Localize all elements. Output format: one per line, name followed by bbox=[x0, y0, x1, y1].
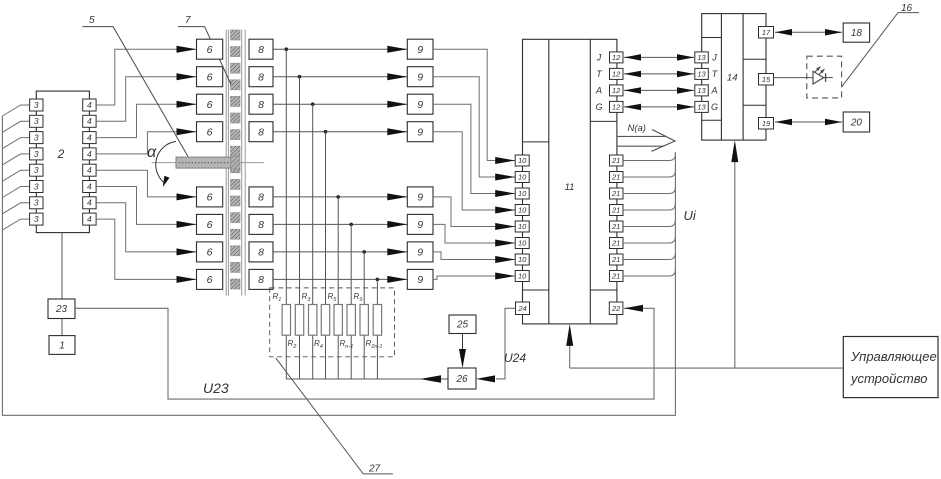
svg-text:10: 10 bbox=[518, 173, 527, 182]
svg-text:3: 3 bbox=[34, 133, 39, 143]
pin box 13.4 bbox=[695, 101, 709, 112]
pin box 21.7 bbox=[610, 254, 624, 265]
svg-text:6: 6 bbox=[207, 219, 213, 231]
wire box21.3 to Ui bus bbox=[623, 187, 675, 194]
wire input line 2 into box 3.2 bbox=[2, 121, 29, 132]
wire box8.5 to box9.5 bbox=[273, 196, 407, 198]
box 9.7 bbox=[407, 242, 433, 262]
junction dot row 3 bbox=[311, 102, 315, 106]
svg-text:3: 3 bbox=[34, 149, 39, 159]
wire input line 1 into box 3.1 bbox=[2, 105, 29, 116]
pin box 21.8 bbox=[610, 271, 624, 282]
svg-text:23: 23 bbox=[55, 304, 68, 315]
wiper shaft centerline bbox=[152, 162, 264, 164]
box 6.7 bbox=[197, 242, 223, 262]
pin box 4.3 bbox=[83, 132, 96, 144]
wire input line 3 into box 3.3 bbox=[2, 138, 29, 149]
svg-text:8: 8 bbox=[258, 71, 264, 83]
arrow up into block 14 bbox=[734, 150, 736, 368]
box 6.6 bbox=[197, 214, 223, 234]
pin box 4.5 bbox=[83, 164, 96, 176]
svg-text:9: 9 bbox=[417, 71, 423, 83]
svg-text:9: 9 bbox=[417, 247, 423, 259]
svg-text:21: 21 bbox=[611, 222, 620, 231]
box 8.2 bbox=[249, 67, 273, 87]
svg-text:10: 10 bbox=[518, 206, 527, 215]
svg-text:10: 10 bbox=[518, 156, 527, 165]
svg-text:10: 10 bbox=[518, 255, 527, 264]
block 11 (measuring unit) outline bbox=[523, 39, 617, 324]
box 9.6 bbox=[407, 214, 433, 234]
wire input line 4 into box 3.4 bbox=[2, 154, 29, 165]
svg-text:12: 12 bbox=[612, 86, 621, 95]
bidirectional wire box12.2 to box13.2 bbox=[624, 73, 694, 75]
svg-text:12: 12 bbox=[612, 53, 621, 62]
bidirectional wire box12.1 to box13.1 bbox=[624, 56, 694, 58]
pin box 4.2 bbox=[83, 115, 96, 127]
svg-text:11: 11 bbox=[565, 182, 575, 193]
svg-text:6: 6 bbox=[207, 274, 213, 286]
box 8.8 bbox=[249, 269, 273, 289]
svg-text:5: 5 bbox=[89, 15, 95, 26]
svg-text:14: 14 bbox=[727, 73, 738, 84]
commutator rail lines (element 7) bbox=[225, 30, 227, 296]
svg-text:3: 3 bbox=[34, 214, 39, 224]
svg-text:22: 22 bbox=[611, 304, 621, 313]
resistor R1 bbox=[282, 305, 290, 336]
bidirectional wire box12.4 to box13.4 bbox=[624, 106, 694, 108]
svg-text:7: 7 bbox=[185, 15, 191, 26]
pin box 4.1 bbox=[83, 99, 96, 111]
svg-text:8: 8 bbox=[258, 274, 264, 286]
box 6.2 bbox=[197, 67, 223, 87]
LED diode symbol bbox=[813, 71, 824, 84]
box 8.6 bbox=[249, 214, 273, 234]
box 8.7 bbox=[249, 242, 273, 262]
pin box 21.1 bbox=[610, 155, 624, 166]
pin box 3.4 bbox=[30, 148, 43, 160]
svg-text:A: A bbox=[595, 86, 602, 96]
junction dot row 1 bbox=[285, 47, 289, 51]
control device box bbox=[843, 337, 938, 398]
wire box21.2 to Ui bus bbox=[623, 171, 675, 178]
box 8.1 bbox=[249, 39, 273, 59]
svg-text:9: 9 bbox=[417, 44, 423, 56]
pin box 4.4 bbox=[83, 148, 96, 160]
leader line and label 27 bbox=[276, 358, 393, 474]
pin box 21.4 bbox=[610, 205, 624, 216]
svg-text:4: 4 bbox=[87, 133, 92, 143]
junction dot row 2 bbox=[298, 75, 302, 79]
svg-text:13: 13 bbox=[697, 86, 706, 95]
block 2 (input register) outline bbox=[36, 91, 89, 233]
svg-text:19: 19 bbox=[762, 119, 771, 128]
svg-text:8: 8 bbox=[258, 219, 264, 231]
svg-text:8: 8 bbox=[258, 192, 264, 204]
pin box 3.8 bbox=[30, 213, 43, 225]
wire box2 bottom to box23 bbox=[61, 233, 63, 299]
pin box 3.7 bbox=[30, 197, 43, 209]
box 8.5 bbox=[249, 187, 273, 207]
box 9.3 bbox=[407, 94, 433, 114]
svg-text:12: 12 bbox=[612, 70, 621, 79]
block 14 left column dividers bbox=[702, 37, 722, 39]
box 9.8 bbox=[407, 269, 433, 289]
arrow box25 to box26 bbox=[462, 334, 464, 351]
bidirectional wire box12.3 to box13.3 bbox=[624, 89, 694, 91]
resistor R8 bbox=[373, 305, 381, 336]
pin box 21.3 bbox=[610, 188, 624, 199]
arrow up into block 11 bbox=[569, 334, 571, 368]
svg-text:21: 21 bbox=[611, 206, 620, 215]
svg-text:Ui: Ui bbox=[684, 208, 697, 223]
svg-text:10: 10 bbox=[518, 272, 527, 281]
wire U23 from box23 to box22 bbox=[75, 308, 654, 399]
box 9.4 bbox=[407, 122, 433, 142]
box 18 bbox=[843, 23, 869, 42]
box 26 bbox=[448, 368, 476, 389]
resistor common bus wire to block 26 bbox=[286, 378, 448, 380]
angle arc with arrow bbox=[156, 141, 176, 183]
pin box 13.2 bbox=[695, 68, 709, 79]
svg-text:6: 6 bbox=[207, 44, 213, 56]
pin box 12.2 bbox=[610, 68, 624, 79]
pin box 3.6 bbox=[30, 181, 43, 193]
svg-text:8: 8 bbox=[258, 247, 264, 259]
box 23 bbox=[48, 299, 75, 319]
svg-text:8: 8 bbox=[258, 126, 264, 138]
pin box 21.2 bbox=[610, 172, 624, 183]
wire box9.2 to box10.2 bbox=[433, 77, 515, 177]
wire box4.7 to box6.7 bbox=[96, 203, 196, 252]
pin box 10.2 bbox=[515, 172, 529, 183]
wire box9.4 to box10.4 bbox=[433, 132, 515, 210]
pin box 10.1 bbox=[515, 155, 529, 166]
resistor R4 bbox=[321, 305, 329, 336]
svg-text:N(a): N(a) bbox=[628, 123, 646, 134]
junction dot row 7 bbox=[362, 250, 366, 254]
wire box9.5 to box10.5 bbox=[433, 197, 515, 227]
wire box8.3 to box9.3 bbox=[273, 103, 407, 105]
bidirectional wire box17 to box18 bbox=[775, 31, 842, 33]
svg-text:3: 3 bbox=[34, 181, 39, 191]
svg-text:4: 4 bbox=[87, 181, 92, 191]
svg-text:4: 4 bbox=[87, 149, 92, 159]
wire box21.8 to Ui bus bbox=[623, 270, 675, 277]
svg-text:9: 9 bbox=[417, 274, 423, 286]
pin box 13.1 bbox=[695, 52, 709, 63]
svg-text:8: 8 bbox=[258, 99, 264, 111]
svg-text:J: J bbox=[711, 53, 717, 63]
box 6.5 bbox=[197, 187, 223, 207]
svg-text:8: 8 bbox=[258, 44, 264, 56]
junction dot row 8 bbox=[376, 278, 380, 282]
pin box 3.1 bbox=[30, 99, 43, 111]
dashed box around LED bbox=[807, 56, 842, 98]
box 25 bbox=[449, 315, 476, 334]
pin box 10.3 bbox=[515, 188, 529, 199]
svg-text:13: 13 bbox=[697, 103, 706, 112]
pin box 10.7 bbox=[515, 254, 529, 265]
pin box 4.6 bbox=[83, 181, 96, 193]
wire box9.8 to box10.8 bbox=[433, 276, 515, 279]
svg-text:21: 21 bbox=[611, 239, 620, 248]
svg-text:21: 21 bbox=[611, 255, 620, 264]
wire box8.1 to box9.1 bbox=[273, 48, 407, 50]
wire input line 6 into box 3.6 bbox=[2, 187, 29, 198]
wire box4.3 to box6.3 bbox=[96, 104, 196, 137]
pin box 12.3 bbox=[610, 85, 624, 96]
pin box 4.8 bbox=[83, 213, 96, 225]
wire control device to blocks 11 and 14 bbox=[570, 367, 844, 369]
svg-text:Управляющее: Управляющее bbox=[850, 349, 937, 364]
svg-text:J: J bbox=[596, 53, 602, 63]
block 14 inner vertical lines bbox=[720, 14, 722, 141]
pin box 10.4 bbox=[515, 205, 529, 216]
wire box21.4 to Ui bus bbox=[623, 204, 675, 211]
box 8.4 bbox=[249, 122, 273, 142]
junction dot row 4 bbox=[324, 130, 328, 134]
svg-text:A: A bbox=[710, 86, 717, 96]
svg-text:24: 24 bbox=[517, 304, 526, 313]
svg-text:20: 20 bbox=[850, 117, 863, 128]
svg-text:13: 13 bbox=[697, 53, 706, 62]
svg-text:6: 6 bbox=[207, 192, 213, 204]
wire box4.8 to box6.8 bbox=[96, 219, 196, 279]
svg-text:26: 26 bbox=[455, 374, 468, 385]
pin box 10.8 bbox=[515, 271, 529, 282]
pin box 3.3 bbox=[30, 132, 43, 144]
block 14 right column dividers bbox=[743, 58, 766, 60]
svg-text:6: 6 bbox=[207, 126, 213, 138]
resistor R5 bbox=[334, 305, 342, 336]
svg-text:4: 4 bbox=[87, 116, 92, 126]
resistor tap wires down from rows bbox=[285, 49, 287, 304]
pin box 21.5 bbox=[610, 221, 624, 232]
svg-text:G: G bbox=[711, 102, 718, 112]
bidirectional wire box19 to box20 bbox=[775, 121, 842, 123]
wire box4.2 to box6.2 bbox=[96, 77, 196, 122]
svg-text:12: 12 bbox=[612, 103, 621, 112]
wire box8.7 to box9.7 bbox=[273, 251, 407, 253]
svg-text:10: 10 bbox=[518, 222, 527, 231]
svg-text:3: 3 bbox=[34, 198, 39, 208]
resistor R3 bbox=[309, 305, 317, 336]
svg-text:9: 9 bbox=[417, 126, 423, 138]
wire box9.3 to box10.3 bbox=[433, 104, 515, 193]
svg-text:3: 3 bbox=[34, 116, 39, 126]
box 20 bbox=[843, 112, 869, 132]
box 6.3 bbox=[197, 94, 223, 114]
hatch where wiper crosses commutator bbox=[231, 156, 241, 169]
box 9.5 bbox=[407, 187, 433, 207]
svg-text:3: 3 bbox=[34, 165, 39, 175]
svg-text:10: 10 bbox=[518, 189, 527, 198]
box 9.1 bbox=[407, 39, 433, 59]
wire box4.5 to box6.5 bbox=[96, 170, 196, 197]
pin box 19 bbox=[759, 118, 774, 130]
box 6.8 bbox=[197, 269, 223, 289]
svg-text:25: 25 bbox=[456, 320, 469, 331]
pin box 22 bbox=[609, 302, 623, 315]
svg-text:1: 1 bbox=[59, 340, 65, 351]
svg-text:9: 9 bbox=[417, 192, 423, 204]
resistor R2 bbox=[295, 305, 303, 336]
junction dot row 5 bbox=[336, 195, 340, 199]
pin box 3.5 bbox=[30, 164, 43, 176]
svg-text:3: 3 bbox=[34, 100, 39, 110]
svg-text:9: 9 bbox=[417, 99, 423, 111]
wire box8.4 to box9.4 bbox=[273, 131, 407, 133]
wire input line 8 into box 3.8 bbox=[2, 219, 29, 230]
wire box9.6 to box10.6 bbox=[433, 224, 515, 243]
svg-text:21: 21 bbox=[611, 189, 620, 198]
pin box 13.3 bbox=[695, 85, 709, 96]
svg-text:G: G bbox=[595, 102, 602, 112]
pin box 12.4 bbox=[610, 101, 624, 112]
wire box8.2 to box9.2 bbox=[273, 76, 407, 78]
wire box21.7 to Ui bus bbox=[623, 253, 675, 260]
wire U24 from box24 to box26 bbox=[496, 308, 516, 379]
svg-text:2: 2 bbox=[57, 147, 65, 161]
wire box21.6 to Ui bus bbox=[623, 237, 675, 244]
wire box15 to LED bbox=[774, 77, 813, 79]
resistor bottom wires to bus bbox=[285, 335, 287, 379]
svg-text:13: 13 bbox=[697, 70, 706, 79]
pin box 17 bbox=[759, 27, 774, 39]
wire input line 5 into box 3.5 bbox=[2, 170, 29, 181]
svg-text:U23: U23 bbox=[203, 380, 229, 396]
svg-text:6: 6 bbox=[207, 247, 213, 259]
svg-text:18: 18 bbox=[851, 28, 863, 39]
svg-text:U24: U24 bbox=[504, 351, 526, 365]
svg-text:6: 6 bbox=[207, 99, 213, 111]
svg-text:15: 15 bbox=[762, 75, 771, 84]
box 6.1 bbox=[197, 39, 223, 59]
pin box 4.7 bbox=[83, 197, 96, 209]
svg-text:21: 21 bbox=[611, 156, 620, 165]
svg-text:4: 4 bbox=[87, 165, 92, 175]
dashed enclosure of resistor matrix (element 27) bbox=[270, 288, 395, 357]
wire box23 to box1 bbox=[61, 319, 63, 336]
wire Ui feedback bus: right vertical, bottom horizontal, left vertical bbox=[2, 116, 675, 415]
wire box4.4 to box6.4 bbox=[96, 132, 196, 154]
svg-text:10: 10 bbox=[518, 239, 527, 248]
box 1 bbox=[49, 336, 75, 355]
box 6.4 bbox=[197, 122, 223, 142]
svg-text:6: 6 bbox=[207, 71, 213, 83]
block 11 left column dividers bbox=[523, 141, 549, 143]
svg-text:21: 21 bbox=[611, 272, 620, 281]
wire box4.6 to box6.6 bbox=[96, 187, 196, 225]
resistor R6 bbox=[347, 305, 355, 336]
box 8.3 bbox=[249, 94, 273, 114]
pin box 24 bbox=[516, 302, 530, 315]
commutator hatched segments (element 7) bbox=[231, 30, 241, 40]
svg-text:17: 17 bbox=[762, 28, 771, 37]
svg-text:27: 27 bbox=[368, 464, 381, 475]
svg-text:4: 4 bbox=[87, 100, 92, 110]
block 14 (interface unit) outline bbox=[702, 14, 766, 141]
resistor R7 bbox=[360, 305, 368, 336]
svg-text:устройство: устройство bbox=[850, 371, 927, 386]
LED emission arrows bbox=[815, 67, 821, 73]
pin box 10.6 bbox=[515, 238, 529, 249]
pin box 21.6 bbox=[610, 238, 624, 249]
svg-text:9: 9 bbox=[417, 219, 423, 231]
svg-text:4: 4 bbox=[87, 214, 92, 224]
junction dot row 6 bbox=[349, 223, 353, 227]
svg-text:α: α bbox=[147, 144, 157, 161]
wire box9.7 to box10.7 bbox=[433, 252, 515, 260]
block 11 right column dividers bbox=[590, 120, 617, 122]
pin box 3.2 bbox=[30, 115, 43, 127]
wire box4.1 to box6.1 bbox=[96, 49, 196, 105]
svg-text:4: 4 bbox=[87, 198, 92, 208]
wide arrow N(a) output bbox=[617, 135, 666, 137]
block 11 inner vertical lines bbox=[548, 39, 550, 324]
wire box21.5 to Ui bus bbox=[623, 220, 675, 227]
pin box 12.1 bbox=[610, 52, 624, 63]
wiper bar (element 5) bbox=[176, 157, 236, 168]
box 9.2 bbox=[407, 67, 433, 87]
wire box21.1 to Ui bus bbox=[623, 154, 675, 161]
svg-text:21: 21 bbox=[611, 173, 620, 182]
wire box8.6 to box9.6 bbox=[273, 223, 407, 225]
pin box 10.5 bbox=[515, 221, 529, 232]
wire input line 7 into box 3.7 bbox=[2, 203, 29, 214]
wire box9.1 to box10.1 bbox=[433, 49, 515, 160]
pin box 15 bbox=[759, 74, 774, 86]
wire box8.8 to box9.8 bbox=[273, 278, 407, 280]
